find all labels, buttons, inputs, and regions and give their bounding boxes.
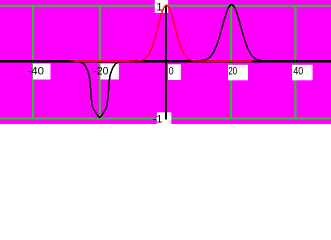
svg-text:40: 40 <box>293 66 303 78</box>
label box 0 <box>168 64 181 80</box>
svg-text:-40: -40 <box>28 66 45 78</box>
gridline y=-1 <box>0 118 331 120</box>
red curve <box>74 5 252 61</box>
svg-text:-20: -20 <box>93 66 108 78</box>
y axis <box>165 6 167 120</box>
gridline x=20 <box>230 5 232 120</box>
svg-text:20: 20 <box>228 66 237 78</box>
gridline y=+1 <box>0 5 331 7</box>
label box -1 <box>157 112 171 124</box>
label box -40 <box>33 64 51 80</box>
label box 20 <box>228 65 248 81</box>
gridline x=0 <box>165 5 167 120</box>
gridline x=-20 <box>99 5 101 120</box>
black curve <box>0 5 331 117</box>
label box -20 <box>101 64 120 80</box>
gridline x=40 <box>295 5 297 120</box>
svg-text:0: 0 <box>169 66 174 78</box>
label box 40 <box>292 65 313 81</box>
gridline x=-40 <box>32 5 34 120</box>
label box +1 <box>155 0 168 13</box>
x axis <box>0 60 331 62</box>
svg-text:-1: -1 <box>153 114 163 124</box>
plot background <box>0 0 331 124</box>
